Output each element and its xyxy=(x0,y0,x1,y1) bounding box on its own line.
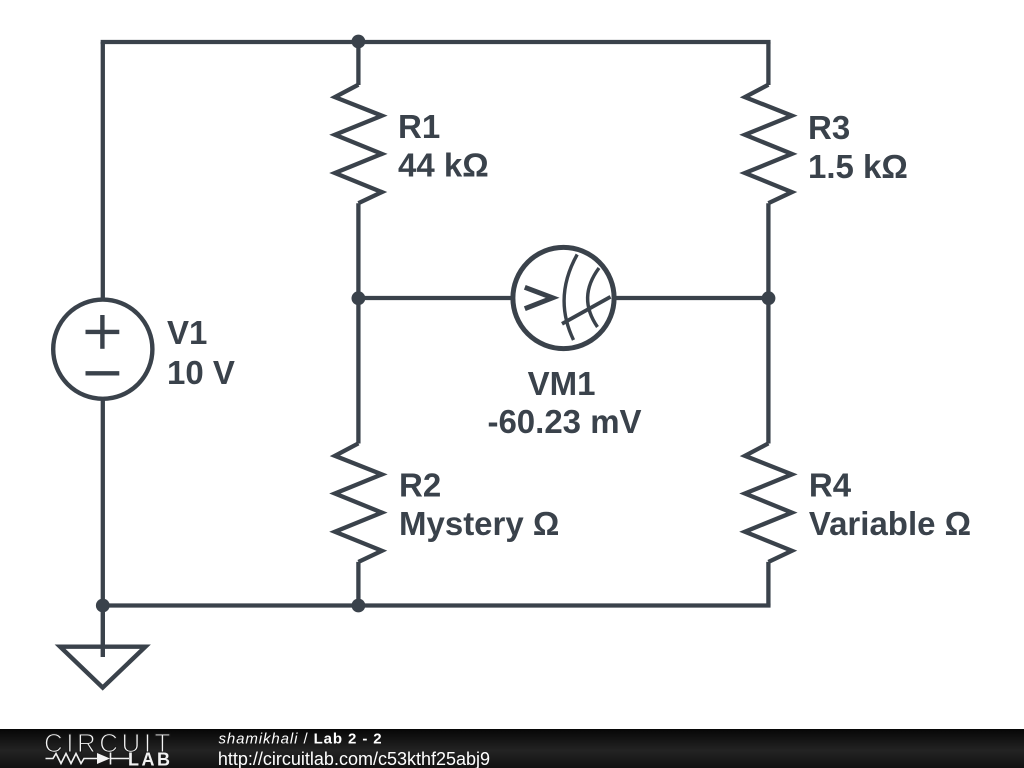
voltage source V1 xyxy=(53,300,152,399)
node: ground-mid junction xyxy=(352,599,366,613)
svg-text:shamikhali / Lab 2 - 2: shamikhali / Lab 2 - 2 xyxy=(219,731,383,748)
svg-text:LAB: LAB xyxy=(128,750,173,768)
wire: R2 branch top lead from mid-left node xyxy=(356,298,360,444)
svg-text:Variable Ω: Variable Ω xyxy=(809,505,971,542)
wire: bridge middle left (mid-left node to VM1 left pin) xyxy=(358,296,513,300)
wire: R2 bottom lead to bottom rail xyxy=(356,562,360,606)
wire: left vertical from top rail down to V1 plus pin xyxy=(101,42,105,300)
wire: bridge middle right (VM1 right pin to mid-right node) xyxy=(614,296,768,300)
svg-text:VM1: VM1 xyxy=(528,365,596,402)
svg-text:R3: R3 xyxy=(808,109,850,146)
svg-text:-60.23 mV: -60.23 mV xyxy=(487,403,641,440)
resistor R2 zigzag xyxy=(335,443,382,562)
wire: R1 branch top lead from top rail xyxy=(356,42,360,85)
node: mid-left junction xyxy=(352,291,366,305)
resistor R1 zigzag xyxy=(335,85,382,204)
svg-text:R1: R1 xyxy=(398,108,440,145)
wire: R1 bottom lead to mid-left node xyxy=(356,203,360,298)
node: ground-left junction xyxy=(96,599,110,613)
wire: R3 branch top lead from top rail xyxy=(766,42,770,85)
resistor R4 zigzag xyxy=(745,443,792,562)
svg-text:http://circuitlab.com/c53kthf2: http://circuitlab.com/c53kthf25abj9 xyxy=(218,749,490,768)
voltmeter VM1 xyxy=(513,247,614,348)
resistor R3 zigzag xyxy=(745,85,792,204)
wire: R4 branch top lead from mid-right node xyxy=(766,298,770,444)
svg-text:R2: R2 xyxy=(399,467,441,504)
node: mid-right junction xyxy=(762,291,776,305)
wire: R3 bottom lead to mid-right node xyxy=(766,203,770,298)
wire: bottom rail from ground node to R4 branch xyxy=(103,603,769,605)
svg-text:10 V: 10 V xyxy=(167,354,235,391)
wire: top rail from V1 branch to R3 branch xyxy=(103,42,769,44)
svg-text:44 kΩ: 44 kΩ xyxy=(398,147,489,184)
wire: V1 minus pin down to ground node xyxy=(101,399,105,606)
node: top junction xyxy=(352,35,366,49)
svg-text:Mystery Ω: Mystery Ω xyxy=(399,505,559,542)
ground xyxy=(60,606,145,688)
svg-text:V1: V1 xyxy=(167,314,207,351)
logo resistor-diode squiggle xyxy=(46,753,130,765)
svg-text:1.5 kΩ: 1.5 kΩ xyxy=(808,148,908,185)
footer watermark bar xyxy=(0,729,1024,768)
svg-text:R4: R4 xyxy=(809,467,852,504)
wire: R4 bottom lead to bottom rail xyxy=(766,562,770,606)
